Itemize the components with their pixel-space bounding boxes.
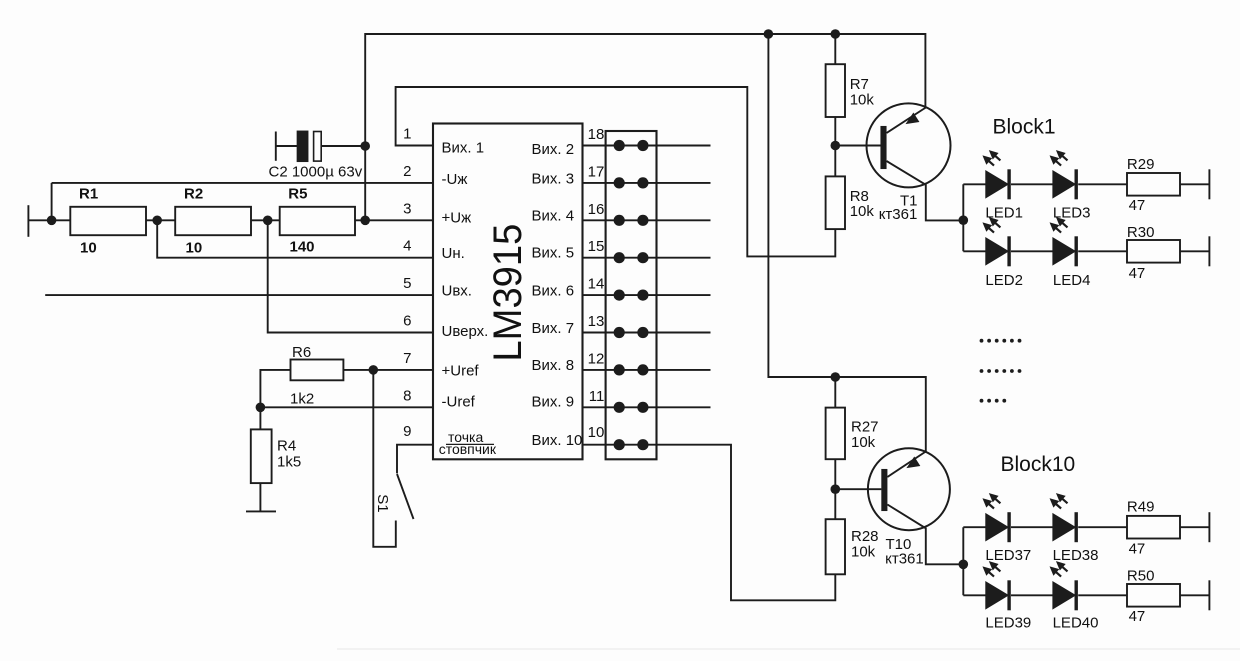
svg-text:S1: S1 (374, 494, 391, 512)
svg-text:LED4: LED4 (1053, 272, 1091, 289)
svg-text:18: 18 (588, 126, 605, 143)
svg-text:16: 16 (588, 201, 605, 218)
svg-text:R27: R27 (851, 419, 879, 436)
svg-text:Вих. 9: Вих. 9 (532, 393, 575, 410)
svg-text:R1: R1 (79, 185, 98, 202)
svg-text:R30: R30 (1127, 224, 1155, 241)
svg-text:R28: R28 (851, 528, 879, 545)
svg-text:LED37: LED37 (985, 547, 1031, 564)
svg-text:-Uж: -Uж (442, 171, 468, 188)
svg-text:12: 12 (588, 350, 605, 367)
svg-text:LED39: LED39 (985, 614, 1031, 631)
svg-text:2: 2 (403, 163, 411, 180)
svg-text:10k: 10k (850, 203, 875, 220)
svg-text:1k5: 1k5 (277, 453, 301, 470)
svg-text:10k: 10k (850, 92, 875, 109)
svg-text:47: 47 (1129, 197, 1146, 214)
svg-text:1: 1 (403, 126, 411, 143)
svg-text:кт361: кт361 (879, 206, 918, 223)
svg-text:LED2: LED2 (985, 272, 1023, 289)
svg-text:Вих. 8: Вих. 8 (532, 357, 575, 374)
svg-text:3: 3 (403, 200, 411, 217)
svg-text:Вих. 1: Вих. 1 (442, 139, 485, 156)
svg-text:47: 47 (1129, 265, 1146, 282)
svg-text:Вих. 4: Вих. 4 (532, 208, 575, 225)
svg-text:10k: 10k (851, 544, 876, 561)
svg-text:14: 14 (588, 276, 605, 293)
svg-text:Uверх.: Uверх. (442, 323, 489, 340)
svg-text:LM3915: LM3915 (486, 224, 530, 362)
svg-text:+Uref: +Uref (442, 362, 480, 379)
svg-text:+Uж: +Uж (442, 209, 472, 226)
svg-text:R7: R7 (850, 76, 869, 93)
svg-text:17: 17 (588, 163, 605, 180)
svg-text:-Uref: -Uref (442, 393, 476, 410)
svg-text:R5: R5 (288, 185, 307, 202)
svg-text:10: 10 (186, 239, 203, 256)
svg-text:R4: R4 (277, 438, 296, 455)
svg-text:5: 5 (403, 275, 411, 292)
svg-text:1k2: 1k2 (290, 391, 314, 408)
svg-text:Uн.: Uн. (442, 245, 465, 262)
svg-text:9: 9 (403, 423, 411, 440)
svg-text:10k: 10k (851, 434, 876, 451)
svg-text:R49: R49 (1127, 499, 1155, 516)
svg-text:13: 13 (588, 313, 605, 330)
svg-text:140: 140 (290, 238, 315, 255)
svg-text:15: 15 (588, 238, 605, 255)
svg-text:стовпчик: стовпчик (439, 441, 497, 457)
svg-text:R6: R6 (292, 344, 311, 361)
svg-text:Block1: Block1 (993, 116, 1056, 139)
svg-text:8: 8 (403, 387, 411, 404)
svg-text:LED3: LED3 (1053, 204, 1091, 221)
svg-text:7: 7 (403, 350, 411, 367)
svg-text:11: 11 (589, 388, 605, 405)
svg-text:Вих. 6: Вих. 6 (532, 283, 575, 300)
svg-text:C2 1000µ 63v: C2 1000µ 63v (269, 164, 363, 181)
svg-text:6: 6 (403, 313, 411, 330)
svg-text:Вих. 10: Вих. 10 (532, 432, 583, 449)
svg-text:10: 10 (588, 424, 605, 441)
svg-text:LED38: LED38 (1053, 547, 1099, 564)
svg-text:47: 47 (1129, 608, 1146, 625)
svg-text:кт361: кт361 (885, 550, 924, 567)
svg-text:10: 10 (80, 239, 97, 256)
svg-text:LED40: LED40 (1053, 614, 1099, 631)
svg-text:Block10: Block10 (1001, 453, 1076, 476)
svg-text:Вих. 5: Вих. 5 (532, 244, 575, 261)
svg-text:R29: R29 (1127, 156, 1155, 173)
svg-text:LED1: LED1 (985, 204, 1023, 221)
svg-text:R50: R50 (1127, 567, 1155, 584)
svg-text:Uвх.: Uвх. (442, 283, 472, 300)
svg-text:47: 47 (1129, 540, 1146, 557)
svg-text:4: 4 (403, 238, 411, 255)
svg-text:R2: R2 (184, 185, 203, 202)
svg-text:Вих. 7: Вих. 7 (532, 320, 575, 337)
svg-text:Вих. 2: Вих. 2 (532, 141, 575, 158)
svg-text:Вих. 3: Вих. 3 (532, 170, 575, 187)
